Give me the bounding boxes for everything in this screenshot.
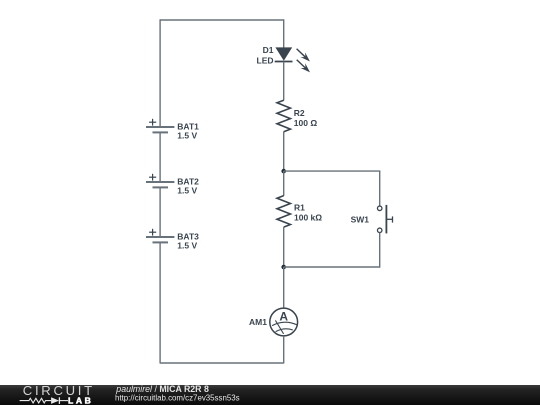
wire: left vertical BAT2 to BAT3 bbox=[159, 187, 161, 237]
svg-text:R1: R1 bbox=[294, 203, 305, 213]
label D1 LED bbox=[257, 45, 274, 66]
wire: R2 to node A bbox=[283, 132, 285, 171]
resistor R2 bbox=[277, 100, 290, 132]
battery BAT2 bbox=[146, 174, 174, 188]
footer bar bbox=[0, 385, 540, 405]
wire: node A to switch branch top bbox=[284, 170, 381, 172]
svg-text:1.5 V: 1.5 V bbox=[177, 130, 197, 140]
wire: left vertical BAT3 to bottom bbox=[159, 242, 161, 363]
label R1 100 kΩ bbox=[294, 203, 322, 223]
wire: switch branch bottom horizontal bbox=[284, 266, 380, 268]
svg-text:A: A bbox=[279, 310, 288, 324]
label SW1 bbox=[351, 215, 370, 225]
label AM1 bbox=[249, 317, 267, 327]
node A junction bbox=[281, 169, 286, 174]
wire: left vertical BAT1 to BAT2 bbox=[159, 132, 161, 182]
svg-text:1.5 V: 1.5 V bbox=[177, 240, 197, 250]
battery BAT1 bbox=[146, 119, 174, 133]
label R2 100 Ω bbox=[294, 108, 318, 128]
ammeter AM1 bbox=[270, 308, 298, 336]
footer text: author / title bbox=[115, 384, 209, 394]
svg-text:100 Ω: 100 Ω bbox=[294, 118, 318, 128]
label BAT3 1.5 V bbox=[177, 231, 199, 250]
CircuitLab logo resistor-diode glyph bbox=[20, 397, 68, 404]
svg-text:http://circuitlab.com/cz7ev35s: http://circuitlab.com/cz7ev35ssn53s bbox=[115, 393, 240, 402]
svg-text:R2: R2 bbox=[294, 108, 305, 118]
LED D1 bbox=[275, 46, 313, 74]
node B junction bbox=[281, 265, 286, 270]
footer text: url bbox=[115, 393, 240, 402]
CircuitLab logo wordmark LAB bbox=[68, 396, 93, 405]
wire: right vertical top to LED bbox=[283, 19, 285, 48]
wire: LED to R2 bbox=[283, 62, 285, 101]
wire: switch branch right vertical top bbox=[379, 171, 381, 206]
wire: R1 to node B bbox=[283, 227, 285, 267]
wire: left vertical top segment to BAT1 bbox=[159, 19, 161, 127]
svg-text:D1: D1 bbox=[263, 45, 274, 55]
wire: top horizontal bbox=[160, 19, 284, 21]
svg-text:LED: LED bbox=[257, 56, 274, 66]
wire: switch branch right vertical bottom bbox=[379, 233, 381, 268]
svg-text:LAB: LAB bbox=[68, 396, 93, 405]
wire: node A to R1 bbox=[283, 171, 285, 196]
resistor R1 bbox=[277, 196, 290, 228]
switch SW1 pushbutton bbox=[377, 205, 392, 234]
svg-text:100 kΩ: 100 kΩ bbox=[294, 213, 322, 223]
wire: bottom horizontal bbox=[160, 362, 284, 364]
svg-text:SW1: SW1 bbox=[351, 215, 370, 225]
CircuitLab logo wordmark CIRCUIT bbox=[23, 383, 95, 398]
svg-text:AM1: AM1 bbox=[249, 317, 267, 327]
svg-text:1.5 V: 1.5 V bbox=[177, 185, 197, 195]
battery BAT3 bbox=[146, 229, 174, 243]
label BAT2 1.5 V bbox=[177, 176, 199, 195]
label BAT1 1.5 V bbox=[177, 121, 199, 140]
wire: ammeter to bottom bbox=[283, 336, 285, 364]
wire: node B to ammeter bbox=[283, 267, 285, 308]
